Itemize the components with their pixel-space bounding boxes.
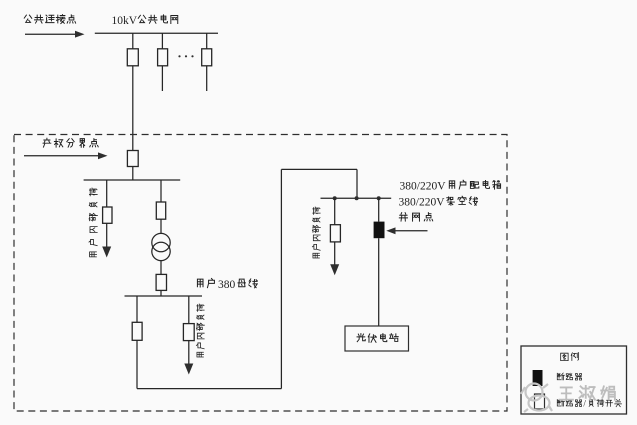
label: 用户380母线 [197, 278, 214, 287]
breaker CB1 on feeder 1 [127, 49, 138, 66]
junction node B [355, 196, 359, 200]
legend symbol: closed breaker (filled) [533, 370, 543, 386]
watermark text: 王淑娟 [560, 386, 615, 400]
junction node A [333, 196, 337, 200]
breaker: property demarcation point [127, 151, 138, 167]
load arrow (user internal load) [102, 247, 111, 258]
wire: feeder 2 stub [161, 66, 163, 91]
breaker: grid-connection switch (closed, filled) [374, 222, 385, 239]
wire: bus to PV breaker [378, 198, 380, 221]
svg-text:380/220V: 380/220V [400, 181, 447, 193]
vertical label: 用户内部负荷 (380V bus) [196, 304, 204, 357]
watermark figure [521, 384, 552, 413]
wire: PV breaker down to PV station [378, 238, 380, 326]
wire: grid bus to breaker CB1 [132, 33, 134, 49]
svg-text:380: 380 [218, 279, 236, 291]
PV station box [345, 326, 409, 351]
wire: bus to breaker T1 [160, 180, 162, 202]
wire: L3 to load arrow [334, 242, 336, 265]
legend box [521, 346, 627, 414]
label: PCC 公共连接点 [24, 15, 75, 24]
arrow to grid-connection point [394, 230, 428, 232]
arrow to PCC [25, 33, 76, 35]
wire: feeder 3 stub [206, 66, 208, 91]
wire: feeder 1 down to boundary breaker [132, 66, 134, 151]
legend symbol: breaker/load switch (open) [535, 394, 545, 409]
junction node C [377, 196, 381, 200]
label: 并网点 [399, 213, 432, 221]
dashed user-installation boundary box [14, 135, 507, 412]
svg-text:10kV: 10kV [112, 15, 138, 27]
breaker L2 (user internal load) [183, 324, 194, 341]
label: 光伏电站 [357, 334, 398, 343]
wire: T2 to 380V bus [160, 290, 162, 296]
wire: right vertical run [280, 169, 282, 388]
transformer TR1 (two windings) [152, 233, 170, 251]
380/220V user distribution bus [321, 197, 392, 199]
legend title: 图例 [561, 353, 579, 361]
wire: transformer to breaker T2 [160, 261, 162, 275]
legend label: 断路器 [557, 373, 581, 380]
label: 产权分界点 [43, 138, 98, 147]
breaker CB2 on feeder 2 [158, 49, 168, 66]
wire: breaker to user 10kV bus [132, 167, 134, 181]
wire: top horizontal run [281, 168, 357, 170]
user 380V bus [125, 295, 203, 297]
wire: grid bus to breaker CB3 [206, 33, 208, 49]
user 10kV bus [84, 179, 181, 181]
vertical label: 用户内部负荷 (left) [89, 188, 97, 257]
wire: 380V bus to breaker L2 [188, 296, 190, 324]
wire: down to 380/220V bus [356, 169, 358, 198]
breaker F1 (feed to 380/220V box) [132, 322, 142, 340]
load arrow (user internal load right) [330, 264, 339, 275]
legend label: 断路器/负荷开关 [557, 399, 581, 406]
wire: bus to breaker L3 [334, 198, 336, 224]
wire: L2 to load arrow [188, 341, 190, 364]
breaker L3 (user internal load) [330, 225, 340, 242]
wire: F1 down [136, 340, 138, 388]
breaker L1 (user internal load) [103, 207, 112, 223]
breaker CB3 on feeder 3 [202, 49, 212, 66]
vertical label: 用户内部负荷 (right) [312, 207, 320, 258]
load arrow (user internal load 380V) [184, 364, 193, 375]
svg-text:380/220V: 380/220V [399, 197, 446, 209]
ellipsis dots (more feeders) [178, 55, 180, 57]
wire: L1 to load arrow [106, 223, 108, 247]
breaker T2 below transformer [156, 274, 166, 290]
10kV public grid bus [95, 32, 218, 34]
wire: 380V bus to breaker F1 [136, 296, 138, 322]
wire: grid bus to breaker CB2 [161, 33, 163, 49]
breaker T1 above transformer [156, 202, 165, 219]
wire: T1 to transformer [160, 219, 162, 233]
arrow to property boundary breaker [24, 155, 99, 157]
wire: bus to internal load breaker L1 [106, 180, 108, 207]
wire: bottom horizontal run [137, 388, 281, 390]
